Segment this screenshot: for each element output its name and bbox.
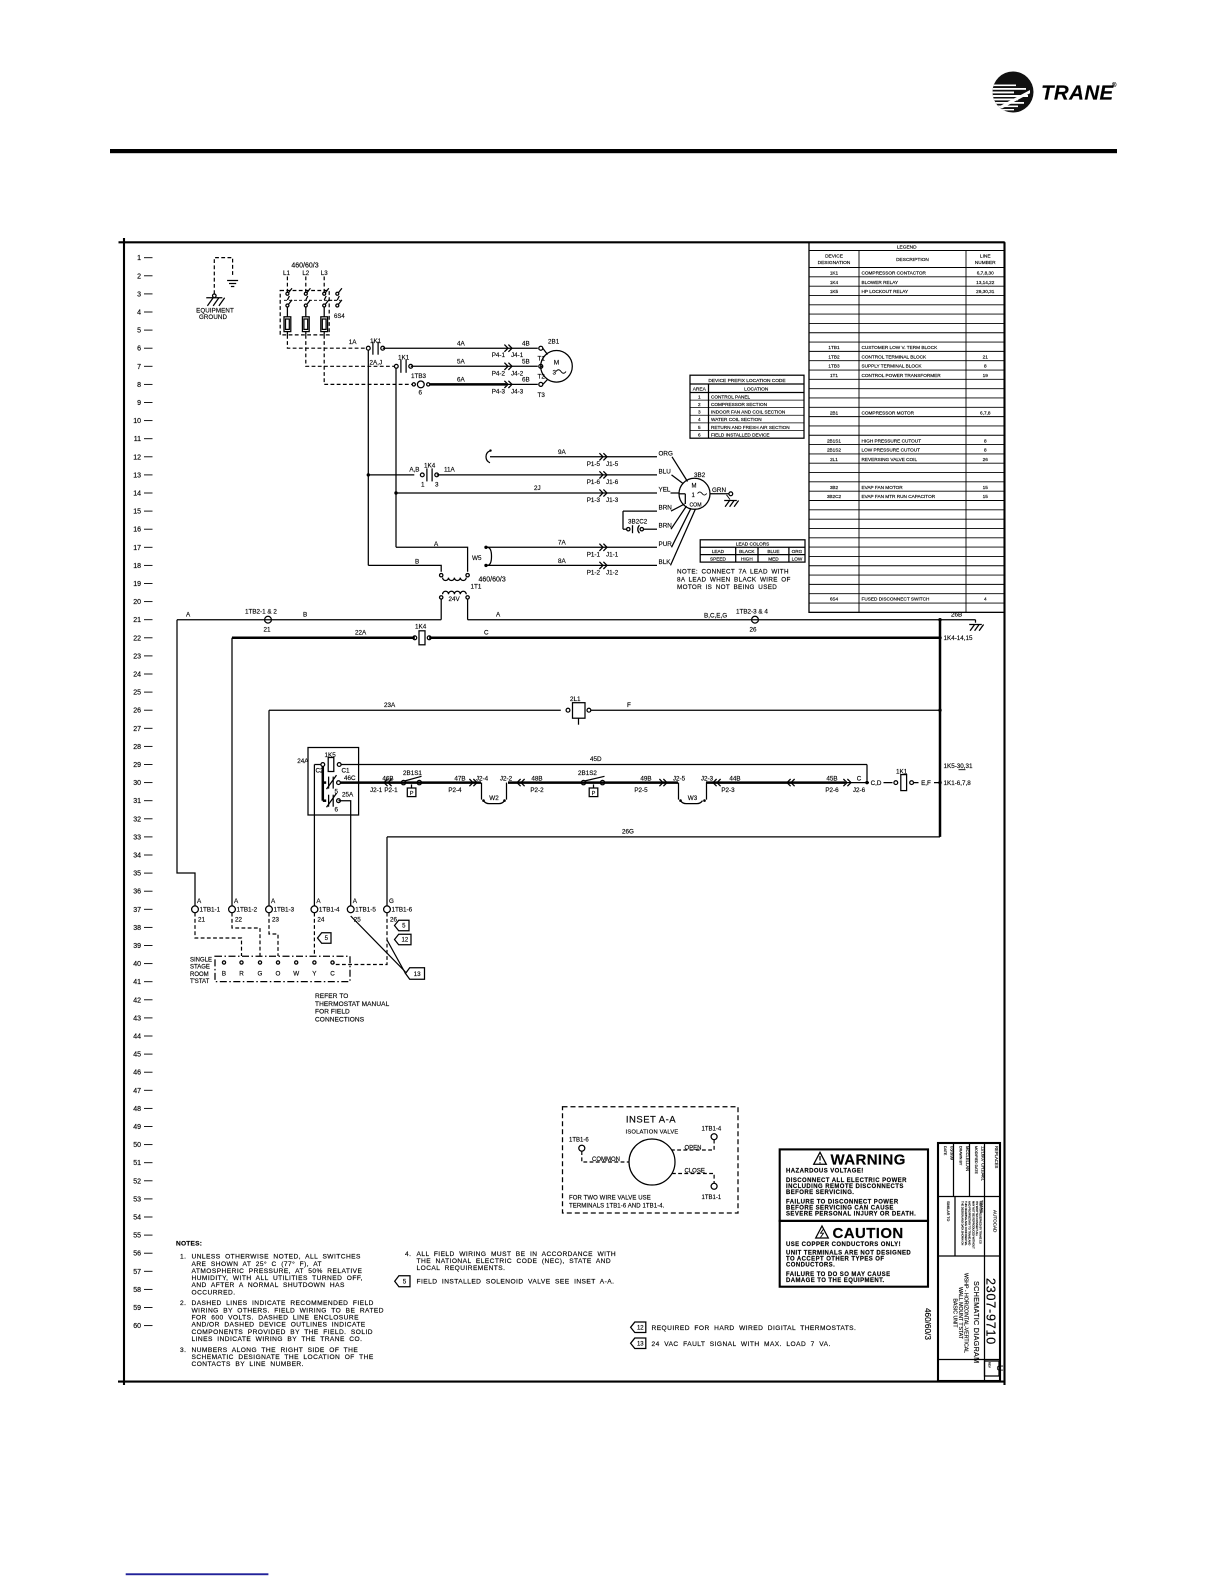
wire A feeder to 1TB1-3 [268, 710, 270, 906]
svg-text:OPEN: OPEN [685, 1146, 702, 1152]
svg-text:NOTES:: NOTES: [176, 1240, 202, 1247]
svg-text:03/3/99: 03/3/99 [950, 1146, 955, 1161]
svg-text:13: 13 [133, 472, 141, 479]
svg-text:COMPRESSOR MOTOR: COMPRESSOR MOTOR [862, 410, 915, 415]
jumper W2 [481, 783, 483, 800]
wire 9A line 12 with hook [486, 451, 490, 463]
wire L1 to contact 1A [287, 335, 365, 348]
equipment ground terminal [213, 294, 217, 298]
svg-text:MED: MED [768, 557, 779, 562]
svg-text:6A: 6A [457, 377, 466, 384]
svg-text:29: 29 [133, 762, 141, 769]
svg-text:O: O [276, 971, 281, 978]
svg-text:2A,J: 2A,J [370, 359, 383, 366]
disconnect pole L3 [323, 277, 325, 293]
svg-text:COMPRESSOR SECTION: COMPRESSOR SECTION [711, 402, 767, 407]
svg-text:P2-3: P2-3 [721, 787, 735, 794]
dashed wire 1TB1-4 to Y [313, 913, 315, 956]
svg-text:STAGE: STAGE [190, 965, 210, 971]
svg-text:46C: 46C [344, 775, 356, 782]
svg-text:CONNECTIONS: CONNECTIONS [315, 1016, 365, 1023]
svg-text:16: 16 [133, 527, 141, 534]
wire 4A line 6 [383, 347, 538, 349]
svg-text:55: 55 [133, 1233, 141, 1240]
svg-text:50: 50 [133, 1142, 141, 1149]
svg-text:58: 58 [133, 1287, 141, 1294]
dashed wire 1TB1-6 down [334, 913, 387, 965]
wire E,F to bus [914, 782, 941, 784]
svg-text:46: 46 [133, 1070, 141, 1077]
wire 11A line 13 [437, 474, 657, 476]
svg-text:DASHED LINES INDICATE RECOMMEN: DASHED LINES INDICATE RECOMMENDED FIELD [192, 1300, 374, 1307]
svg-text:J1-3: J1-3 [606, 497, 619, 504]
svg-text:NOTE: CONNECT 7A LEAD WITH: NOTE: CONNECT 7A LEAD WITH [677, 569, 789, 576]
connector P2-5 (>>) [659, 779, 663, 786]
svg-text:HP LOCKOUT RELAY: HP LOCKOUT RELAY [862, 289, 910, 294]
svg-text:REFER TO: REFER TO [315, 993, 348, 1000]
equipment ground dashed wire [214, 258, 232, 294]
svg-text:460/60/3: 460/60/3 [479, 577, 506, 584]
flag 13 [406, 968, 425, 980]
svg-text:8: 8 [137, 382, 141, 389]
svg-text:BLACK: BLACK [739, 549, 755, 554]
svg-text:8: 8 [984, 364, 987, 369]
svg-text:59: 59 [133, 1305, 141, 1312]
svg-text:44B: 44B [729, 776, 740, 783]
svg-text:5: 5 [325, 936, 329, 942]
svg-text:6: 6 [698, 432, 701, 437]
svg-text:TRANE: TRANE [1041, 82, 1115, 105]
svg-text:ARE SHOWN AT 25° C (77° F), AT: ARE SHOWN AT 25° C (77° F), AT [192, 1260, 323, 1268]
svg-text:13,14,22: 13,14,22 [976, 280, 995, 285]
svg-text:LEGEND: LEGEND [897, 245, 917, 251]
svg-text:PUR: PUR [659, 541, 673, 548]
svg-text:BASIC UNIT: BASIC UNIT [952, 1298, 958, 1328]
svg-text:J1-6: J1-6 [606, 479, 619, 486]
svg-text:33: 33 [133, 834, 141, 841]
svg-text:J1-5: J1-5 [606, 461, 619, 468]
svg-text:12: 12 [402, 938, 409, 944]
connector P1-1 J1-1 [599, 544, 603, 551]
svg-text:5: 5 [698, 425, 701, 430]
svg-text:32: 32 [133, 816, 141, 823]
dashed wire 1TB1-3 to O [269, 913, 278, 956]
svg-text:P2-5: P2-5 [634, 787, 648, 794]
svg-text:1TB1-3: 1TB1-3 [274, 907, 295, 914]
svg-text:L1: L1 [283, 270, 290, 277]
svg-text:SUPPLY TERMINAL BLOCK: SUPPLY TERMINAL BLOCK [862, 364, 923, 369]
dashed wire common [582, 1151, 629, 1162]
svg-text:LOCATION: LOCATION [744, 387, 769, 393]
connector P1-6 J1-6 [599, 471, 603, 478]
svg-text:29,30,31: 29,30,31 [976, 289, 995, 294]
svg-text:THE DESIGN AND DATA SHOWN ON: THE DESIGN AND DATA SHOWN ON [961, 1201, 965, 1245]
svg-text:2J: 2J [534, 485, 541, 492]
svg-text:22: 22 [235, 917, 243, 924]
svg-text:1TB1-5: 1TB1-5 [355, 907, 376, 914]
svg-text:A: A [186, 612, 191, 619]
disconnect pole L1 [286, 277, 288, 293]
svg-text:A: A [496, 612, 501, 619]
svg-text:B,C,E,G: B,C,E,G [704, 612, 727, 619]
1K5 contact bold riser [322, 766, 325, 800]
wire 26G line 33 [387, 836, 940, 838]
svg-text:HIGH PRESSURE CUTOUT: HIGH PRESSURE CUTOUT [862, 438, 922, 443]
wire line 30 segment 1 (bold) [340, 781, 481, 784]
svg-text:1.: 1. [180, 1254, 186, 1261]
svg-text:11: 11 [134, 436, 141, 443]
svg-text:14: 14 [133, 491, 141, 498]
svg-text:2307-9710: 2307-9710 [984, 1278, 998, 1345]
svg-text:BRN: BRN [659, 523, 673, 530]
jumper W3 [678, 783, 680, 800]
thermostat terminal Y [313, 961, 316, 964]
svg-text:SIMILAR TO: SIMILAR TO [946, 1201, 950, 1221]
svg-text:34: 34 [133, 853, 141, 860]
fan motor internal YEL lead [679, 493, 685, 495]
svg-text:22A: 22A [355, 629, 367, 636]
svg-text:49B: 49B [640, 776, 651, 783]
svg-text:24 VAC FAULT SIGNAL WITH MAX.: 24 VAC FAULT SIGNAL WITH MAX. LOAD 7 VA. [652, 1341, 831, 1348]
svg-text:AND/OR DASHED DEVICE OUTLINES: AND/OR DASHED DEVICE OUTLINES INDICATE [192, 1322, 366, 1329]
svg-text:49: 49 [133, 1124, 141, 1131]
svg-text:3B2: 3B2 [830, 485, 839, 490]
svg-text:J2-1: J2-1 [370, 787, 383, 794]
svg-text:BLUE: BLUE [767, 549, 779, 554]
svg-text:36: 36 [133, 889, 141, 896]
motor terminal T3 [539, 382, 543, 386]
svg-text:24: 24 [317, 917, 325, 924]
warning triangle [814, 1152, 827, 1164]
svg-text:1TB1: 1TB1 [828, 345, 840, 350]
svg-text:WATER COIL SECTION: WATER COIL SECTION [711, 417, 762, 422]
dashed wire 1TB1-1 to R [195, 913, 242, 956]
svg-text:1: 1 [698, 395, 701, 400]
svg-text:1TB1-4: 1TB1-4 [702, 1126, 722, 1132]
svg-text:P4-3: P4-3 [492, 388, 506, 395]
svg-text:B: B [415, 559, 419, 566]
svg-text:CONTROL PANEL: CONTROL PANEL [711, 395, 750, 400]
svg-text:G: G [389, 898, 394, 905]
svg-text:1: 1 [137, 255, 141, 262]
svg-text:7: 7 [137, 364, 141, 371]
svg-text:26: 26 [983, 457, 989, 462]
svg-text:6,7,8: 6,7,8 [980, 410, 991, 415]
wire 6A line 8 (bold) [430, 383, 506, 386]
wire 45D line 29 [341, 764, 867, 766]
svg-text:W3: W3 [688, 795, 698, 802]
svg-text:FOR FIELD: FOR FIELD [315, 1009, 350, 1016]
svg-text:3.: 3. [180, 1347, 186, 1354]
svg-text:A: A [353, 898, 358, 905]
svg-text:DEVICE PREFIX LOCATION CODE: DEVICE PREFIX LOCATION CODE [708, 378, 785, 384]
wire B vertical from line 7 [395, 368, 397, 548]
svg-text:6S4: 6S4 [830, 597, 839, 602]
svg-text:1K4: 1K4 [830, 280, 839, 285]
svg-text:4B: 4B [522, 340, 530, 347]
svg-text:F: F [627, 702, 631, 709]
svg-text:1: 1 [421, 481, 425, 488]
svg-text:BEFORE SERVICING CAN CAUSE: BEFORE SERVICING CAN CAUSE [786, 1205, 894, 1211]
svg-text:8: 8 [984, 448, 987, 453]
svg-text:56: 56 [133, 1251, 141, 1258]
drawing border frame [123, 238, 125, 1385]
svg-text:RIGHTS RESERVED BY TRANE CO: RIGHTS RESERVED BY TRANE CO [979, 1201, 983, 1244]
svg-text:M: M [692, 484, 697, 490]
dashed wire close [672, 1174, 714, 1184]
svg-text:17: 17 [133, 545, 141, 552]
inset A-A dashed border [563, 1107, 739, 1213]
svg-text:THE NATIONAL ELECTRIC CODE (NE: THE NATIONAL ELECTRIC CODE (NEC), STATE … [417, 1258, 612, 1265]
note flag 12 [631, 1322, 646, 1333]
svg-text:3B2C2: 3B2C2 [827, 494, 842, 499]
svg-text:U: U [995, 1365, 1005, 1371]
svg-text:37: 37 [133, 907, 141, 914]
connector P4-2 J4-2 [504, 363, 508, 370]
wire L2 to contact 2A,J [306, 335, 394, 366]
svg-text:9A: 9A [558, 449, 567, 456]
connector P2-1 (<<) [388, 779, 392, 786]
connector P2-4 (>>) [469, 779, 473, 786]
wire G feeder to 1TB1-6 [386, 837, 388, 906]
revision cell U [985, 1361, 1000, 1376]
svg-text:26G: 26G [622, 829, 634, 836]
svg-text:5: 5 [402, 924, 406, 930]
svg-text:21: 21 [198, 917, 206, 924]
device prefix location code table [690, 375, 804, 438]
svg-text:P1-1: P1-1 [587, 551, 601, 558]
wire A,B line 13 [368, 474, 414, 476]
header rule [110, 149, 1117, 153]
svg-text:43: 43 [133, 1015, 141, 1022]
svg-text:3: 3 [698, 410, 701, 415]
svg-text:FOR TWO WIRE VALVE USE: FOR TWO WIRE VALVE USE [569, 1196, 651, 1202]
svg-text:COM: COM [689, 503, 701, 509]
svg-text:HAZARDOUS VOLTAGE!: HAZARDOUS VOLTAGE! [786, 1168, 864, 1174]
svg-text:YEL: YEL [659, 487, 671, 494]
svg-text:P: P [410, 791, 414, 797]
svg-text:6: 6 [419, 389, 423, 396]
dashed wire open [672, 1140, 715, 1150]
svg-text:L3: L3 [321, 270, 328, 277]
svg-text:2.: 2. [180, 1300, 186, 1307]
svg-text:LINES INDICATE WIRING BY THE T: LINES INDICATE WIRING BY THE TRANE CO. [192, 1336, 363, 1343]
title block outer box [938, 1143, 1000, 1381]
svg-text:MODIFIED DATE: MODIFIED DATE [974, 1146, 978, 1174]
1K5 NC contact 6 line 31 [323, 799, 326, 802]
lead colors table [700, 540, 805, 562]
connector P1-3 J1-3 [599, 489, 603, 496]
wire 23A line 26 [269, 709, 561, 711]
HP lockout relay 1K5 enclosure [308, 748, 359, 816]
svg-text:BLU: BLU [659, 468, 672, 475]
svg-text:P1-6: P1-6 [587, 479, 601, 486]
svg-text:SEVERE PERSONAL INJURY OR DEAT: SEVERE PERSONAL INJURY OR DEATH. [786, 1212, 916, 1218]
wire 2J line 14 [396, 492, 657, 494]
svg-text:6S4: 6S4 [334, 314, 345, 320]
svg-text:J1-2: J1-2 [606, 569, 619, 576]
svg-text:1K5: 1K5 [830, 289, 839, 294]
svg-text:P4-1: P4-1 [492, 352, 506, 359]
svg-text:54: 54 [133, 1215, 141, 1222]
svg-text:23: 23 [133, 653, 141, 660]
svg-text:2: 2 [137, 273, 141, 280]
svg-text:3B2C2: 3B2C2 [628, 519, 648, 526]
svg-text:1TB1-2: 1TB1-2 [237, 907, 258, 914]
svg-text:CLOSE: CLOSE [685, 1168, 705, 1174]
wire line 21 left [177, 619, 441, 621]
svg-text:1TB2: 1TB2 [828, 354, 840, 359]
svg-text:19: 19 [983, 373, 989, 378]
svg-text:6: 6 [335, 807, 339, 814]
svg-text:12: 12 [133, 454, 141, 461]
svg-text:J2-4: J2-4 [476, 776, 489, 783]
svg-text:1TB1-6: 1TB1-6 [392, 907, 413, 914]
earth ground symbol [227, 280, 238, 282]
svg-text:12: 12 [637, 1325, 644, 1331]
svg-text:GRN: GRN [712, 487, 726, 494]
svg-text:52: 52 [133, 1178, 141, 1185]
svg-text:P: P [592, 791, 596, 797]
svg-text:24V: 24V [449, 596, 461, 603]
svg-text:REVERSING VALVE COIL: REVERSING VALVE COIL [862, 457, 918, 462]
thermostat terminal O [276, 961, 279, 964]
wire A feeder to 1TB1-2 [231, 638, 233, 906]
svg-text:60: 60 [133, 1323, 141, 1330]
fused disconnect switch 6S4 enclosure [280, 291, 329, 335]
junction line 14 [394, 491, 397, 494]
svg-text:460/60/3: 460/60/3 [291, 262, 318, 269]
svg-text:C: C [484, 629, 489, 636]
svg-text:REV: REV [988, 1362, 992, 1368]
svg-text:46B: 46B [382, 776, 393, 783]
svg-text:47B: 47B [454, 776, 465, 783]
svg-text:AUTOCAD: AUTOCAD [993, 1210, 998, 1233]
svg-text:53: 53 [133, 1196, 141, 1203]
svg-text:A: A [234, 898, 239, 905]
svg-text:CONTACTS BY LINE NUMBER.: CONTACTS BY LINE NUMBER. [192, 1361, 304, 1368]
svg-text:J2-5: J2-5 [673, 776, 686, 783]
svg-text:41: 41 [133, 979, 141, 986]
motor 2B1 lead wires [543, 348, 548, 354]
wire 8A line 18 [484, 564, 487, 567]
fault signal wire from 1TB1-6 branch [387, 940, 406, 974]
svg-text:5B: 5B [522, 358, 530, 365]
svg-text:AREA: AREA [693, 387, 707, 393]
svg-text:45D: 45D [590, 756, 602, 763]
title block dividers [938, 1196, 1000, 1198]
svg-text:6B: 6B [522, 377, 530, 384]
svg-text:P1-5: P1-5 [587, 461, 601, 468]
wire 5A line 7 [411, 365, 538, 367]
svg-text:24: 24 [133, 672, 141, 679]
thermostat terminal C [331, 961, 334, 964]
svg-text:5A: 5A [457, 358, 466, 365]
svg-text:4: 4 [984, 597, 987, 602]
svg-text:AND PROPRIETARY TO TRANE AND: AND PROPRIETARY TO TRANE AND [968, 1201, 972, 1245]
svg-text:MOTOR IS NOT BEING USED: MOTOR IS NOT BEING USED [677, 584, 777, 591]
svg-text:1TB2-3 & 4: 1TB2-3 & 4 [736, 608, 768, 615]
caution box [780, 1221, 928, 1287]
svg-text:24A: 24A [297, 758, 309, 765]
svg-text:3: 3 [553, 370, 557, 377]
svg-text:1T1: 1T1 [830, 373, 838, 378]
svg-text:44: 44 [133, 1034, 141, 1041]
connector P1-5 J1-5 [599, 453, 603, 460]
svg-text:L2: L2 [302, 270, 309, 277]
svg-text:13: 13 [414, 971, 422, 978]
wire line 30 segment 3 (bold) [706, 781, 845, 784]
svg-text:P2-1: P2-1 [384, 787, 398, 794]
svg-text:G: G [258, 971, 263, 978]
mid connector (<<) [791, 779, 795, 786]
warning box [780, 1149, 928, 1221]
svg-text:DATE: DATE [943, 1146, 947, 1156]
fuse L2 [302, 317, 309, 332]
svg-text:USE COPPER CONDUCTORS ONLY!: USE COPPER CONDUCTORS ONLY! [786, 1242, 901, 1248]
svg-text:LOW: LOW [792, 557, 803, 562]
svg-text:1K4-14,15: 1K4-14,15 [944, 635, 974, 642]
svg-text:48: 48 [133, 1106, 141, 1113]
svg-text:6,7,8,30: 6,7,8,30 [977, 271, 994, 276]
svg-text:J4-3: J4-3 [511, 388, 524, 395]
fuse L1 [284, 317, 291, 332]
svg-text:1K1-6,7,8: 1K1-6,7,8 [944, 780, 972, 787]
svg-text:EVAP FAN MTR RUN CAPACITOR: EVAP FAN MTR RUN CAPACITOR [862, 494, 936, 499]
svg-text:42: 42 [133, 997, 141, 1004]
svg-text:4: 4 [137, 310, 141, 317]
svg-text:TERMINALS 1TB1-6 AND 1TB1-4.: TERMINALS 1TB1-6 AND 1TB1-4. [569, 1203, 665, 1209]
svg-text:27: 27 [133, 726, 141, 733]
svg-text:LOCAL REQUIREMENTS.: LOCAL REQUIREMENTS. [417, 1265, 506, 1272]
svg-text:C: C [857, 776, 862, 783]
svg-text:MAY NOT BE REPRODUCED WITHOUT: MAY NOT BE REPRODUCED WITHOUT [971, 1201, 975, 1249]
svg-text:4A: 4A [457, 340, 466, 347]
svg-text:4: 4 [698, 417, 701, 422]
svg-text:2: 2 [698, 402, 701, 407]
svg-text:SCHEMATIC DIAGRAM: SCHEMATIC DIAGRAM [972, 1281, 981, 1363]
svg-text:7A: 7A [558, 540, 567, 547]
svg-text:INSET A-A: INSET A-A [626, 1115, 676, 1126]
svg-text:NUMBER: NUMBER [975, 260, 996, 266]
svg-text:1K1: 1K1 [830, 271, 839, 276]
inset terminal 1TB1-1 [711, 1183, 717, 1189]
svg-text:AND AFTER A NORMAL SHUTDOWN HA: AND AFTER A NORMAL SHUTDOWN HAS [192, 1282, 345, 1289]
svg-text:M: M [554, 360, 559, 367]
svg-text:22: 22 [133, 635, 141, 642]
wire L3 to terminal 1TB3 [324, 335, 412, 385]
svg-text:DEVICE: DEVICE [825, 254, 843, 260]
svg-text:B: B [222, 971, 226, 978]
svg-text:FOR 600 VOLTS. DASHED LINE ENC: FOR 600 VOLTS. DASHED LINE ENCLOSURE [192, 1315, 360, 1322]
fuse L3 [321, 317, 328, 332]
svg-text:21: 21 [983, 354, 989, 359]
svg-text:WIRING BY OTHERS. FIELD WIRING: WIRING BY OTHERS. FIELD WIRING TO BE RAT… [192, 1307, 384, 1314]
control power transformer 1T1 [440, 574, 443, 577]
svg-text:28: 28 [133, 744, 141, 751]
svg-text:LINE: LINE [980, 254, 991, 260]
svg-text:DESCRIPTION: DESCRIPTION [896, 257, 929, 263]
svg-text:SINGLE: SINGLE [190, 958, 212, 964]
svg-text:THERMOSTAT MANUAL: THERMOSTAT MANUAL [315, 1001, 390, 1008]
svg-text:1K4: 1K4 [415, 624, 427, 631]
svg-text:CONTROL POWER TRANSFORMER: CONTROL POWER TRANSFORMER [862, 373, 942, 378]
svg-text:51: 51 [133, 1160, 141, 1167]
isolation valve body [629, 1139, 675, 1185]
svg-text:10: 10 [133, 418, 141, 425]
line number ruler 1-60 [133, 255, 152, 1330]
wire 22A line 22 (bold) [232, 637, 415, 640]
